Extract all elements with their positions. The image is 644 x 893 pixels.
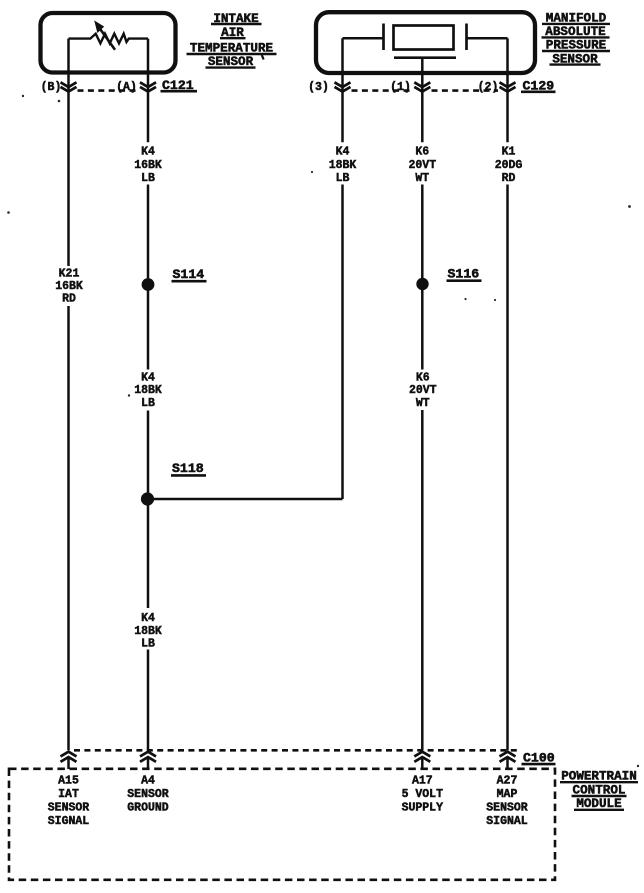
svg-text:(A): (A) (116, 81, 137, 94)
splice S116 (416, 278, 428, 290)
svg-text:RD: RD (62, 292, 76, 305)
MAP inner lead right (467, 37, 508, 40)
svg-text:18BK: 18BK (134, 384, 162, 397)
MAP inner lead left (343, 37, 384, 40)
svg-text:LB: LB (141, 638, 155, 651)
svg-text:S114: S114 (173, 267, 205, 282)
svg-text:20VT: 20VT (408, 159, 436, 172)
svg-text:A17: A17 (412, 774, 433, 787)
svg-text:GROUND: GROUND (127, 801, 169, 814)
connector C100 pin A15 chevron (61, 752, 77, 762)
wire A (IAT pin A to PCM A4) (147, 39, 150, 143)
MAP sensor element: center rectangle (394, 26, 454, 50)
thermistor (variable resistor) element (69, 34, 149, 44)
svg-text:20VT: 20VT (409, 384, 437, 397)
svg-text:MAP: MAP (497, 788, 518, 801)
svg-text:SUPPLY: SUPPLY (402, 801, 444, 814)
svg-text:K4: K4 (336, 146, 350, 159)
svg-text:K4: K4 (141, 371, 155, 384)
svg-text:LB: LB (141, 397, 155, 410)
svg-text:(3): (3) (308, 81, 329, 94)
connector C100 dashed line (74, 749, 519, 752)
svg-text:RD: RD (502, 172, 516, 185)
svg-text:K6: K6 (416, 371, 430, 384)
svg-text:K6: K6 (415, 146, 429, 159)
svg-text:K1: K1 (502, 146, 516, 159)
svg-text:A27: A27 (497, 774, 518, 787)
svg-text:(2): (2) (478, 81, 499, 94)
svg-text:16BK: 16BK (134, 159, 162, 172)
connector C129 pin (3) chevron (335, 82, 351, 91)
svg-text:A4: A4 (141, 774, 155, 787)
svg-text:K4: K4 (141, 612, 155, 625)
connector C100 pin A27 chevron (500, 752, 516, 762)
thermistor arrow (101, 30, 116, 50)
splice S114 (142, 278, 155, 291)
wire B (IAT pin B to PCM A15) (67, 39, 70, 266)
svg-text:WT: WT (416, 397, 430, 410)
scan noise specks (7, 95, 639, 767)
connector C121 pin (A) chevron (140, 82, 156, 91)
svg-text:18BK: 18BK (329, 159, 357, 172)
svg-text:(B): (B) (41, 81, 62, 94)
splice S118 (141, 492, 154, 505)
svg-text:S118: S118 (172, 461, 204, 476)
MAP sensor box outline (316, 12, 535, 73)
svg-text:K21: K21 (59, 268, 80, 281)
svg-text:18BK: 18BK (134, 625, 162, 638)
connector C100 pin A4 chevron (140, 752, 156, 762)
svg-text:(1): (1) (390, 81, 411, 94)
svg-text:K4: K4 (141, 146, 155, 159)
connector C121 pin (B) chevron (61, 82, 77, 91)
wire from S118 to MAP pin 3 branch (148, 498, 343, 501)
svg-text:S116: S116 (448, 266, 480, 281)
wire 1 (MAP pin 1 to PCM A17) (421, 58, 424, 143)
svg-text:A15: A15 (58, 774, 79, 787)
svg-text:5 VOLT: 5 VOLT (402, 788, 444, 801)
svg-text:SENSOR: SENSOR (486, 801, 528, 814)
wire 2 (MAP pin 2 to PCM A27) (506, 38, 509, 142)
svg-text:LB: LB (141, 172, 155, 185)
svg-text:SIGNAL: SIGNAL (48, 815, 90, 828)
svg-text:SENSOR: SENSOR (127, 788, 169, 801)
connector C100 pin A17 chevron (414, 752, 430, 762)
connector C129 pin (1) chevron (414, 82, 430, 91)
stray apostrophe mark (262, 55, 264, 60)
svg-text:WT: WT (415, 172, 429, 185)
wire 3 (MAP pin 3 down to S118 link) (341, 38, 344, 142)
svg-text:IAT: IAT (58, 788, 79, 801)
MAP sensor element: left plate (382, 24, 385, 51)
IAT sensor box outline (41, 13, 176, 73)
MAP sensor element: right plate (465, 24, 468, 51)
connector C129 pin (2) chevron (500, 82, 516, 91)
svg-text:SIGNAL: SIGNAL (486, 815, 528, 828)
svg-text:LB: LB (336, 172, 350, 185)
connector C129 dashed lines (352, 89, 414, 92)
svg-text:SENSOR: SENSOR (48, 801, 90, 814)
svg-text:20DG: 20DG (495, 159, 523, 172)
MAP sensor element: base line (394, 56, 456, 59)
PCM dashed box (9, 769, 555, 880)
svg-text:16BK: 16BK (55, 280, 83, 293)
connector C121 dashed line (78, 89, 140, 92)
